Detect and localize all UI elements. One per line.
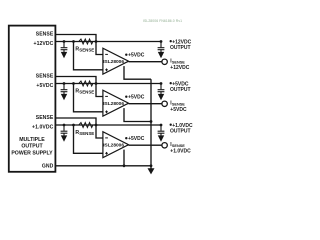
node: SENSE/rail junction ch2 [95,82,98,85]
capacitor output filter ch2 [158,84,165,95]
op-amp ISL28006 ch1 [103,48,129,74]
label +1.0VDC OUTPUT ch3 [170,124,172,126]
wire: SENSE pin ch1 from supply box, corner down to amp inverting input [55,35,103,55]
svg-text:SENSE: SENSE [79,48,94,53]
capacitor supply filter ch1 [61,42,68,53]
svg-text:+12VDC: +12VDC [170,65,189,71]
resistor RSENSE ch2 [79,81,93,86]
output terminal circle ch1 [162,59,167,64]
svg-text:SENSE: SENSE [79,90,94,95]
svg-text:POWER SUPPLY: POWER SUPPLY [11,151,53,157]
svg-text:MULTIPLE: MULTIPLE [19,137,45,143]
svg-text:OUTPUT: OUTPUT [170,129,191,135]
wire: amp output ch3 [129,144,162,146]
wire: vertical ground bus [150,79,152,166]
svg-text:+1.0VDC: +1.0VDC [170,148,191,154]
junction dot on rail at x=161 (output filter ch3) [160,124,163,127]
capacitor output filter ch1 [158,42,165,53]
svg-text:GND: GND [42,164,54,170]
label +5VDC OUTPUT ch2 [170,82,172,84]
svg-text:OUTPUT: OUTPUT [21,144,43,150]
ground symbol at bottom of bus [150,166,152,169]
resistor RSENSE ch1 [79,39,93,44]
op-amp ISL28006 ch2 [103,90,129,116]
resistor RSENSE ch3 [79,123,93,128]
svg-text:+1.0VDC: +1.0VDC [32,124,54,130]
plus input symbol ch1 [105,68,108,71]
plus input symbol ch2 [105,110,108,113]
junction dot on rail at x=161 (output filter ch2) [160,82,163,85]
svg-text:SENSE: SENSE [79,131,94,136]
svg-text:+5VDC: +5VDC [128,53,145,59]
capacitor output filter ch3 [158,125,165,136]
ground arrow below capacitor supply filter ch2 [61,94,67,100]
svg-text:SENSE: SENSE [36,32,54,38]
wire: rail to amp non-inverting input ch1 [72,40,75,43]
wire: rail to amp non-inverting input ch3 [72,124,75,127]
svg-text:OUTPUT: OUTPUT [170,87,191,93]
label +12VDC OUTPUT ch1 [170,40,172,42]
wire: amp ground stub ch2 to ground bus [124,108,151,121]
svg-text:ISL28006 FN6186.0 Rv1: ISL28006 FN6186.0 Rv1 [143,19,182,23]
svg-text:+5VDC: +5VDC [128,95,145,101]
wire: SENSE pin ch3 from supply box, corner down to amp inverting input [55,118,103,138]
capacitor supply filter ch3 [61,125,68,136]
svg-text:+12VDC: +12VDC [34,41,54,47]
node: ch3 stub joins GND line [123,164,126,167]
svg-text:+5VDC: +5VDC [128,136,145,142]
wire: +1.0VDC rail ch3 [55,124,161,126]
node: bus joins GND line [150,164,153,167]
svg-text:ISL28006: ISL28006 [103,59,124,65]
junction dot on rail at x=64 (supply filter ch2) [63,82,66,85]
minus input symbol ch3 [105,137,108,139]
op-amp V+ dot and +5VDC label ch2 [125,96,127,98]
op-amp ISL28006 ch3 [103,132,129,158]
output terminal circle ch3 [162,143,167,148]
ground arrow below capacitor supply filter ch1 [61,52,67,58]
svg-text:ISL28006: ISL28006 [103,142,124,148]
output terminal circle ch2 [162,101,167,106]
node: SENSE/rail junction ch3 [95,124,98,127]
svg-text:SENSE: SENSE [36,115,54,121]
svg-text:OUTPUT: OUTPUT [170,45,191,51]
node: SENSE/rail junction ch1 [95,40,98,43]
op-amp V+ dot and +5VDC label ch1 [125,54,127,56]
junction dot on rail at x=161 (output filter ch1) [160,40,163,43]
svg-text:ISL28006: ISL28006 [103,101,124,107]
wire: GND line from supply box [55,165,151,167]
power supply box [9,26,56,172]
capacitor supply filter ch2 [61,84,68,95]
minus input symbol ch2 [105,95,108,97]
junction dot on rail at x=64 (supply filter ch1) [63,40,66,43]
op-amp V+ dot and +5VDC label ch3 [125,137,127,139]
node: ch2 route joins bus [150,120,153,123]
ground arrow below capacitor output filter ch2 [158,94,164,100]
wire: amp ground stub ch1 to ground bus [124,66,151,79]
svg-text:+5VDC: +5VDC [170,107,187,113]
junction dot on rail at x=64 (supply filter ch3) [63,124,66,127]
wire: +12VDC rail ch1 [55,41,161,43]
wire: SENSE pin ch2 from supply box, corner down to amp inverting input [55,77,103,97]
ground arrow below capacitor output filter ch1 [158,52,164,58]
plus input symbol ch3 [105,152,108,155]
wire: amp output ch2 [129,103,162,105]
svg-text:+5VDC: +5VDC [36,83,53,89]
ground arrow below capacitor output filter ch3 [158,135,164,141]
wire: rail to amp non-inverting input ch2 [72,82,75,85]
wire: +5VDC rail ch2 [55,83,161,85]
svg-text:SENSE: SENSE [36,74,54,80]
minus input symbol ch1 [105,53,108,55]
ground arrow below capacitor supply filter ch3 [61,135,67,141]
wire: amp ground stub ch3 to ground bus [123,150,125,166]
wire: amp output ch1 [129,61,162,63]
